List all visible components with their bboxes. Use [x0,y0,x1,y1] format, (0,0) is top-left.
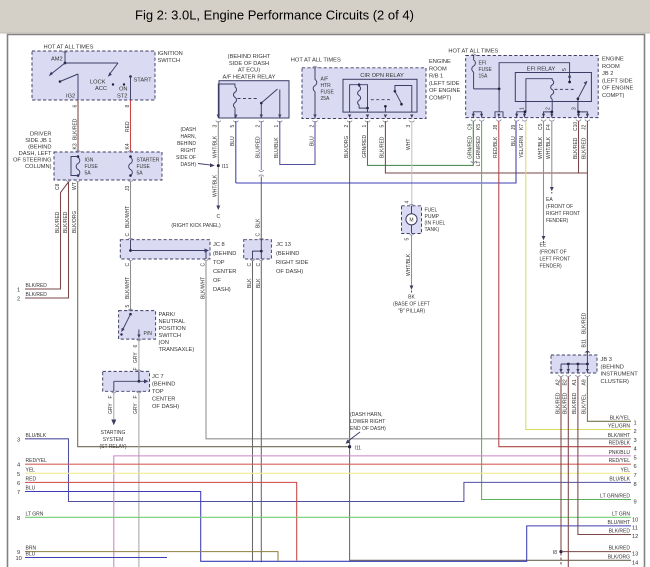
svg-text:BLU/RED: BLU/RED [256,136,262,158]
svg-text:(DASH: (DASH [180,127,196,133]
ignition switch box [32,45,183,101]
svg-text:ST2: ST2 [117,94,127,100]
svg-text:2: 2 [309,125,315,128]
svg-text:ENGINE: ENGINE [429,59,451,65]
wire GRY JC7 second output down to bottom [133,391,141,567]
svg-text:ACC: ACC [95,86,107,92]
svg-text:RIGHT SIDE: RIGHT SIDE [276,260,309,266]
svg-text:OF DASH): OF DASH) [152,404,179,410]
svg-text:BEHIND: BEHIND [177,141,196,147]
svg-text:10: 10 [632,518,638,524]
svg-text:3: 3 [571,107,577,110]
svg-text:YEL/GRN: YEL/GRN [519,136,525,158]
svg-text:WHT/BLK: WHT/BLK [213,135,219,158]
JB2 terminal bracket C10/J2 [577,111,587,118]
svg-text:FUSE: FUSE [321,90,335,96]
svg-text:7: 7 [17,490,20,496]
svg-text:WHT/BLK: WHT/BLK [213,174,219,197]
svg-text:C: C [256,233,262,237]
svg-text:LT GRN/RED: LT GRN/RED [476,136,482,166]
svg-text:YEL: YEL [26,467,36,473]
svg-text:5: 5 [634,456,637,462]
svg-text:END OF DASH): END OF DASH) [350,426,386,432]
svg-text:BLU: BLU [230,136,236,146]
svg-text:HOT AT ALL TIMES: HOT AT ALL TIMES [291,58,341,64]
svg-text:3: 3 [406,125,412,128]
svg-text:DRIVER: DRIVER [30,132,52,138]
svg-text:1: 1 [634,421,637,427]
wire YEL left edge 5 to right edge 7 [17,467,637,479]
svg-text:CLUSTER): CLUSTER) [601,379,630,385]
svg-text:7: 7 [634,473,637,479]
svg-text:OF ENGINE: OF ENGINE [429,88,460,94]
wire RED left edge 6 [17,476,297,560]
svg-text:BLK/RED: BLK/RED [63,211,69,233]
svg-text:I11: I11 [222,164,229,170]
svg-text:C: C [216,214,220,220]
wire RED/YEL left edge 4 to right edge 6 [17,458,637,470]
svg-text:(BEHIND RIGHT: (BEHIND RIGHT [228,54,271,60]
svg-text:NEUTRAL: NEUTRAL [159,319,186,325]
svg-text:SIDE OF DASH: SIDE OF DASH [229,61,269,67]
svg-text:25A: 25A [321,96,331,102]
wire BLK/ORG from JB1 WT down to I11 junction [72,182,349,447]
relay CIR OPN RELAY box [343,73,417,112]
wire LT GRN/RED right edge 9 label [600,494,637,506]
svg-text:RIGHT FRONT: RIGHT FRONT [546,211,580,217]
svg-text:GRN/RED: GRN/RED [362,135,368,158]
wire ST2 RED to JB1 K4 [125,100,133,152]
wire IG2 BLK/RED to JB1 K3 [72,100,80,152]
svg-text:SIDE OF: SIDE OF [176,155,196,161]
svg-text:(LEFT SIDE: (LEFT SIDE [602,78,633,84]
engine room R/B 1 box [291,58,461,119]
wire LT GRN left edge 8 to right edge 10 [17,511,638,523]
svg-text:BLK/ORG: BLK/ORG [608,554,630,560]
svg-text:5: 5 [17,472,20,478]
svg-text:1: 1 [17,288,20,294]
wire GRY JC7 to starting system [99,391,126,450]
wire BLU/BLK left edge 3 [17,433,631,502]
JB2 terminal bracket J9/K7 [517,110,527,117]
wire BLK JC13 right output to bottom [256,259,264,562]
svg-text:(FRONT OF: (FRONT OF [540,250,567,256]
wire BLK/WHT JB1 J3 to JC8 [125,182,133,240]
svg-text:Fig 2: 3.0L, Engine Performanc: Fig 2: 3.0L, Engine Performance Circuits… [135,8,414,23]
svg-text:8: 8 [634,482,637,488]
wire BLK/YEL JB3 A9 to right edge 1 [587,377,636,427]
JB2 bottom connectors and arrows [468,114,590,131]
svg-text:P/N: P/N [144,331,153,337]
svg-text:RED: RED [125,121,131,132]
wire GRN/RED CIR OPN pin1 to JB2 C9 [362,121,476,165]
wire PNK/BLU to right edge 5 [114,450,637,567]
svg-text:I11: I11 [355,446,362,452]
label (DASH HARN LOWER RIGHT END OF DASH) with arrow to I11 [346,412,387,444]
svg-text:8: 8 [125,105,131,108]
svg-text:8: 8 [17,516,20,522]
svg-text:(LEFT SIDE: (LEFT SIDE [429,81,460,87]
svg-text:YEL: YEL [621,467,631,473]
svg-text:EA: EA [546,197,553,203]
svg-text:5A: 5A [137,171,144,177]
svg-text:1: 1 [519,107,525,110]
svg-text:RED/YEL: RED/YEL [609,458,631,464]
wire BLU/BLK pin1 to A/F HTR fuse [274,121,315,165]
svg-text:2: 2 [256,125,262,128]
svg-text:FUSE: FUSE [137,164,151,170]
svg-text:ENGINE: ENGINE [602,57,624,63]
svg-text:HTR: HTR [321,83,332,89]
relay EFI RELAY box [515,67,591,102]
svg-text:FUSE: FUSE [85,164,99,170]
svg-text:2: 2 [546,107,552,110]
wire BLU/RED pin2 to inline connector then BLK to JC13 [256,121,264,240]
svg-text:PARK/: PARK/ [159,312,176,318]
svg-text:6: 6 [634,464,637,470]
svg-text:PUMP: PUMP [425,214,440,220]
wire BLK/RED J2/B11 down to JB3 [582,121,591,355]
svg-text:SWITCH: SWITCH [158,58,180,64]
JB1 bottom connector C8 [55,180,71,190]
svg-text:6: 6 [17,481,20,487]
svg-text:FENDER): FENDER) [546,218,569,224]
svg-text:COMPT): COMPT) [602,93,625,99]
wire BLK/RED JB3 A1 to right edge 12 [578,377,638,540]
svg-text:1: 1 [362,125,368,128]
ignition switch contacts LOCK/ACC/ON/START [59,75,152,92]
svg-text:BLK/RED: BLK/RED [572,392,578,414]
EFI relay switch arm [555,81,588,102]
svg-text:5: 5 [380,125,386,128]
svg-text:B2: B2 [563,379,569,385]
CIR OPN relay coil [350,83,369,112]
svg-text:JC 7: JC 7 [152,374,164,380]
svg-text:GRY: GRY [133,403,139,414]
svg-text:COMPT): COMPT) [429,96,452,102]
svg-text:SWITCH: SWITCH [159,333,181,339]
junction block JB3 box [551,355,638,385]
A/F relay pin connectors and labels [213,115,283,128]
svg-text:BLK: BLK [256,218,262,228]
svg-text:5: 5 [125,305,131,308]
svg-text:F: F [133,395,139,398]
svg-text:BLK/RED: BLK/RED [609,546,631,552]
wire BLU pin5 joining long BLU run [230,121,236,183]
svg-text:(BEHIND: (BEHIND [601,364,624,370]
svg-text:WHT/BLK: WHT/BLK [406,253,412,276]
svg-text:BLK/RED: BLK/RED [573,137,579,159]
R/B1 bottom pin connectors [309,115,414,128]
svg-text:BLU/BLK: BLU/BLK [609,476,630,482]
svg-text:EE: EE [540,243,547,249]
wire BLK/ORG right edge 14 label [608,554,639,566]
svg-text:2: 2 [634,429,637,435]
svg-text:BLK/RED: BLK/RED [55,211,61,233]
wire WHT/BLK C5 to EE ground [540,121,571,270]
svg-text:JC 13: JC 13 [276,242,291,248]
wire YEL/GRN right edge 2 label [608,424,637,436]
svg-text:9: 9 [634,499,637,505]
wire BLU/WHT right edge 11 label [608,520,638,532]
wire WHT CIR OPN pin3 to fuel pump [406,121,412,206]
svg-text:SIDE JB 1: SIDE JB 1 [25,138,51,144]
svg-text:I8: I8 [553,550,557,556]
svg-text:A1: A1 [572,379,578,385]
svg-text:GRY: GRY [133,352,139,363]
JB1 bottom connector J3 [125,180,133,191]
svg-text:DASH): DASH) [213,287,231,293]
svg-text:YEL/GRN: YEL/GRN [608,424,630,430]
title bar [0,0,650,33]
svg-text:STARTING: STARTING [101,430,126,436]
svg-text:2: 2 [17,297,20,303]
svg-text:K5: K5 [476,124,482,130]
svg-text:C8: C8 [55,183,61,190]
svg-text:JC 8: JC 8 [213,242,225,248]
fuel pump box [402,201,446,234]
svg-text:BLK/RED: BLK/RED [26,292,48,298]
svg-text:BLK/RED: BLK/RED [555,392,561,414]
svg-text:5: 5 [404,238,410,241]
svg-text:1: 1 [274,125,280,128]
svg-text:J9: J9 [511,125,517,131]
svg-text:K4: K4 [125,143,131,149]
wire BLK/RED from C8 to left edge 1 [17,182,69,294]
svg-text:CENTER: CENTER [213,269,236,275]
svg-text:TOP: TOP [152,389,164,395]
svg-text:C: C [200,263,206,267]
svg-text:RIGHT: RIGHT [180,148,196,154]
svg-text:RED/BLK: RED/BLK [609,441,631,447]
EFI relay pin5 contact [568,73,571,84]
svg-text:JB 2: JB 2 [602,71,613,77]
JB2 terminal bracket J8 [495,112,503,118]
svg-text:A/F: A/F [321,77,329,83]
svg-text:IGNITION: IGNITION [158,51,183,57]
svg-text:WHT/BLK: WHT/BLK [538,136,544,159]
svg-text:(BEHIND: (BEHIND [276,251,299,257]
wire BRN left edge 9 [17,546,278,562]
svg-text:J8: J8 [493,125,499,131]
svg-text:K3: K3 [72,143,78,149]
svg-text:RED/BLK: RED/BLK [493,136,499,158]
svg-text:POSITION: POSITION [159,326,186,332]
svg-text:3: 3 [213,125,219,128]
svg-text:TANK): TANK) [425,227,440,233]
svg-text:OF: OF [213,278,221,284]
svg-text:BLU/BLK: BLU/BLK [274,137,280,158]
svg-text:BLU: BLU [26,552,36,558]
svg-text:EFI RELAY: EFI RELAY [527,67,556,73]
svg-text:BLK/RED: BLK/RED [26,283,48,289]
svg-text:LOCK: LOCK [90,80,106,86]
svg-text:B11: B11 [582,339,588,348]
svg-text:(ST RELAY): (ST RELAY) [99,444,126,450]
svg-text:GRN/RED: GRN/RED [468,136,474,159]
wire GRY P/N switch to JC7 [133,339,141,371]
svg-text:BLK/WHT: BLK/WHT [200,277,206,299]
svg-text:INSTRUMENT: INSTRUMENT [601,372,639,378]
wire YEL/GRN K7 down to right edge 2 [526,121,631,430]
svg-text:BLU: BLU [511,136,517,146]
EFI relay coil [526,79,554,102]
svg-text:BLK/RED: BLK/RED [380,136,386,158]
ignition switch ST2 pole [117,77,131,101]
svg-text:COLUMN): COLUMN) [25,164,52,170]
svg-text:C: C [125,233,131,237]
junction JC13 box [244,240,309,275]
svg-text:5: 5 [230,125,236,128]
svg-text:ROOM: ROOM [602,64,620,70]
svg-text:(BEHIND: (BEHIND [28,145,51,151]
svg-text:BLK/WHT: BLK/WHT [125,277,131,299]
svg-text:C9: C9 [468,123,474,130]
svg-text:START: START [134,78,153,84]
svg-text:(BEHIND: (BEHIND [152,382,175,388]
svg-text:15A: 15A [479,74,489,80]
svg-text:BLU: BLU [309,136,315,146]
svg-text:BLK: BLK [247,278,253,288]
wire RED/BLK J8 down to right edge 4 [499,121,631,447]
svg-text:(BEHIND: (BEHIND [213,251,236,257]
wire BLK/RED JB3 A2 to I8 junction and right edge 13 [553,377,639,566]
JB2 output wire labels [468,136,588,166]
svg-text:4: 4 [17,463,20,469]
svg-text:M: M [409,218,413,224]
svg-text:CENTER: CENTER [152,397,175,403]
svg-text:J3: J3 [125,186,131,192]
svg-text:ON: ON [119,87,128,93]
svg-text:HARN,: HARN, [180,134,196,140]
wire BLK/RED CIR OPN pin5 across to JB3 feed [380,121,588,173]
label (DASH HARN BEHIND RIGHT SIDE OF DASH) [176,127,196,168]
svg-text:11: 11 [632,526,638,532]
wire BLU left edge 10 [16,552,168,563]
svg-text:TOP: TOP [213,260,225,266]
svg-text:(FRONT OF: (FRONT OF [546,204,573,210]
svg-text:(DASH HARN,: (DASH HARN, [350,412,383,418]
svg-text:3: 3 [634,438,637,444]
svg-text:RED: RED [26,476,37,482]
svg-text:5A: 5A [85,171,92,177]
JB2 terminal bracket C9/K5 [473,112,481,118]
svg-text:4: 4 [634,447,637,453]
svg-text:OF ENGINE: OF ENGINE [602,86,633,92]
svg-text:IG2: IG2 [66,94,75,100]
svg-text:AM2: AM2 [51,57,63,63]
svg-text:BLK/RED: BLK/RED [582,137,588,159]
long wire BLU from A/F relay pin5 to JB2 J9 [236,121,516,183]
svg-text:EFI: EFI [479,61,487,67]
svg-text:FENDER): FENDER) [540,264,563,270]
wire BLK/RED C10 down to junction [578,121,580,173]
svg-text:BK: BK [408,295,415,301]
JB1 bottom connector WT [72,180,80,190]
svg-text:BLK/WHT: BLK/WHT [125,206,131,228]
svg-text:LT GRN: LT GRN [26,511,44,517]
svg-text:BLU: BLU [26,486,36,492]
JB3 bottom connectors [555,369,590,414]
svg-text:3: 3 [17,437,20,443]
svg-text:BLU/WHT: BLU/WHT [608,520,631,526]
motor M fuel pump [406,206,417,234]
driver side JB1 box [13,132,162,181]
wire BLK/WHT JC8 right output down and across to right edge 3 [200,259,631,439]
svg-text:STARTER: STARTER [137,158,160,164]
wire BLU/BLK right edge 8 label [609,476,636,488]
svg-text:A2: A2 [555,379,561,385]
svg-text:AT ECU): AT ECU) [238,68,260,74]
svg-text:OF DASH): OF DASH) [276,269,303,275]
svg-text:(BASE OF LEFT: (BASE OF LEFT [393,302,430,308]
svg-text:6: 6 [133,345,139,348]
fuse EFI FUSE 15A [471,54,570,112]
engine room JB2 box [448,49,633,118]
svg-text:J2: J2 [582,125,588,131]
svg-text:LT GRN/RED: LT GRN/RED [600,494,630,500]
wire BLK JC13 left output to bottom [247,259,255,561]
wire RED/BLK right edge 4 label [609,441,637,453]
svg-text:WHT: WHT [406,139,412,150]
svg-text:TRANSAXLE): TRANSAXLE) [159,347,195,353]
A/F heater relay coil [218,84,236,118]
svg-text:12: 12 [632,534,638,540]
fuse IGN FUSE 5A [71,155,99,177]
svg-text:GRY: GRY [108,403,114,414]
ground BK base of left B pillar [393,286,430,315]
svg-text:5: 5 [562,68,568,71]
wire WHT/BLK F4 to EA ground [546,121,580,224]
svg-text:RED/YEL: RED/YEL [26,458,48,464]
svg-text:BLK/RED: BLK/RED [72,118,78,140]
svg-text:BLK/RED: BLK/RED [563,392,569,414]
wire LT GRN/RED K5 down to right edge 9 [482,121,631,500]
wire WHT/BLK pin3 to I11 and right kick panel C [171,121,228,229]
wire BLK/RED from C8 to left edge 2 [17,182,69,303]
JB2 terminal bracket C5/F4 [544,111,554,118]
wire BLK/RED JB3 B2 down [567,377,569,567]
CIR OPN relay switch [371,86,412,113]
wire BLK/ORG CIR OPN pin2 down to I11 then wire14 [344,121,631,560]
svg-text:FUEL: FUEL [425,208,438,214]
svg-text:BLK/RED: BLK/RED [582,312,588,334]
svg-text:OF STEERING: OF STEERING [13,158,52,164]
svg-text:BLK/ORG: BLK/ORG [344,136,350,158]
svg-text:"B" PILLAR): "B" PILLAR) [398,309,426,315]
svg-text:ROOM: ROOM [429,66,447,72]
svg-text:WHT/BLK: WHT/BLK [546,136,552,159]
svg-text:BLU/BLK: BLU/BLK [26,433,47,439]
svg-text:C5: C5 [538,123,544,130]
A/F heater relay switch [238,89,280,118]
svg-text:BLK/YEL: BLK/YEL [582,393,588,414]
svg-text:LEFT FRONT: LEFT FRONT [540,257,571,263]
svg-text:C10: C10 [573,122,579,131]
svg-text:10: 10 [16,556,22,562]
junction JC8 box [120,240,236,293]
svg-text:14: 14 [632,560,638,566]
svg-text:BLK: BLK [256,278,262,288]
svg-text:JB 3: JB 3 [601,357,612,363]
park/neutral position switch box [119,311,195,353]
svg-text:IGN: IGN [85,158,94,164]
svg-text:F4: F4 [546,124,552,130]
svg-text:HOT AT ALL TIMES: HOT AT ALL TIMES [44,45,94,51]
wire WHT/BLK fuel pump to BK ground [404,234,414,286]
wire BLU left edge 7 down and across [17,486,631,562]
junction JC7 box [103,371,180,410]
